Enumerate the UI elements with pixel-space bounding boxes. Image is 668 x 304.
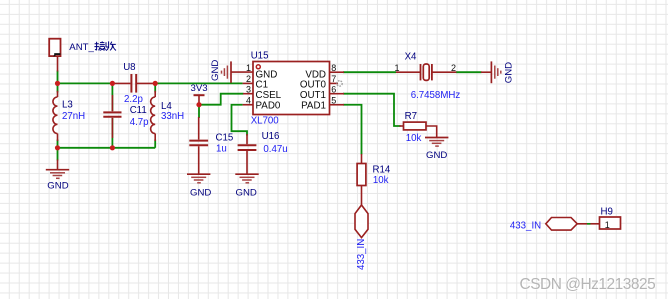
- svg-text:5: 5: [331, 96, 336, 106]
- pin 2 stub: [243, 82, 253, 84]
- svg-text:4: 4: [246, 96, 251, 106]
- svg-text:6.7458MHz: 6.7458MHz: [411, 90, 461, 101]
- svg-text:R14: R14: [373, 165, 391, 176]
- capacitor C15: [189, 117, 208, 174]
- value 4.7p: [130, 117, 149, 128]
- pin names left: [256, 69, 282, 111]
- value 27nH: [62, 111, 85, 122]
- svg-text:10k: 10k: [406, 133, 422, 144]
- watermark CSDN: [520, 276, 657, 294]
- wire L4 vertical x=155.2: [154, 83, 156, 147]
- wire VDD pin8 to crystal X4 pin1: [343, 71, 396, 73]
- svg-text:1: 1: [246, 63, 251, 73]
- wire antenna vertical x=57.5: [57, 71, 59, 148]
- svg-text:0.47u: 0.47u: [263, 144, 287, 155]
- capacitor C11: [103, 95, 121, 138]
- svg-text:H9: H9: [601, 206, 613, 217]
- net label ANT_接收: [69, 41, 116, 53]
- svg-text:2.2p: 2.2p: [124, 94, 143, 105]
- svg-text:2: 2: [246, 74, 251, 84]
- svg-text:U8: U8: [123, 62, 135, 73]
- designator C11: [130, 105, 147, 116]
- net label GND (below L3): [47, 181, 68, 192]
- resistor R7: [400, 122, 437, 137]
- svg-text:GND: GND: [503, 62, 514, 83]
- pin 4 stub: [243, 104, 253, 106]
- capacitor U8 (horizontal): [114, 74, 154, 93]
- port 433_IN (vertical, below R14): [355, 205, 368, 238]
- wire 3V3 down to C15: [198, 105, 200, 118]
- junction dot C11 top: [110, 81, 115, 86]
- svg-text:U16: U16: [262, 131, 280, 142]
- designator U8: [123, 62, 135, 73]
- connector P ANT rectangle: [49, 39, 60, 72]
- junction dot L3 bottom: [55, 145, 60, 150]
- svg-text:C15: C15: [216, 133, 234, 144]
- designator U16: [262, 131, 280, 142]
- designator R7: [405, 111, 417, 122]
- svg-text:433_IN: 433_IN: [356, 239, 367, 270]
- svg-text:L3: L3: [62, 100, 73, 111]
- svg-text:1: 1: [394, 63, 399, 73]
- svg-text:CSEL: CSEL: [256, 90, 282, 101]
- svg-text:33nH: 33nH: [161, 111, 184, 122]
- designator X4: [405, 52, 417, 63]
- value 6.7458MHz: [411, 90, 461, 101]
- ground GND below R7: [425, 138, 448, 147]
- net label GND (rotated, at pin1): [210, 60, 221, 81]
- svg-text:GND: GND: [426, 150, 447, 161]
- wire crystal X4 pin2 to ground: [456, 71, 482, 73]
- svg-text:PAD0: PAD0: [256, 101, 281, 112]
- svg-text:6: 6: [331, 85, 336, 95]
- power port 3V3: [194, 95, 205, 105]
- svg-text:XL700: XL700: [251, 116, 280, 127]
- value 10k: [406, 133, 422, 144]
- ground GND below C15: [187, 174, 210, 183]
- junction dot L4 top: [153, 81, 158, 86]
- svg-text:ANT_: ANT_: [69, 42, 94, 53]
- svg-text:GND: GND: [190, 187, 211, 198]
- pin1 marker circle: [256, 65, 260, 69]
- net label GND (below R7): [426, 150, 447, 161]
- connector H9 rectangle: [600, 217, 621, 229]
- svg-text:CSDN @Hz1213825: CSDN @Hz1213825: [520, 276, 656, 293]
- svg-text:1: 1: [605, 220, 610, 230]
- svg-text:OUT1: OUT1: [300, 90, 326, 101]
- svg-text:433_IN: 433_IN: [510, 221, 541, 232]
- designator U15: [251, 51, 269, 62]
- value 1u: [216, 144, 227, 155]
- pin 3 stub: [243, 93, 253, 95]
- pin 8 stub: [330, 71, 345, 73]
- value 0.47u: [263, 144, 287, 155]
- net label GND (below U16): [236, 187, 257, 198]
- value 33nH: [161, 111, 184, 122]
- port 433_IN (horizontal, at H9): [546, 218, 577, 231]
- value 2.2p: [124, 94, 143, 105]
- svg-text:PAD1: PAD1: [301, 101, 326, 112]
- value 10k (R14): [373, 175, 389, 186]
- wire PAD1 pin5 to R14: [343, 105, 362, 155]
- ground sideways after crystal: [481, 61, 501, 83]
- svg-text:GND: GND: [210, 60, 221, 81]
- svg-text:3V3: 3V3: [191, 83, 208, 94]
- net label 433_IN (at H9): [510, 221, 541, 232]
- wire 3V3 to CSEL pin3: [199, 94, 244, 105]
- designator L4: [161, 101, 172, 112]
- net label GND (rotated, after crystal): [503, 62, 514, 83]
- ground GND below L3: [46, 160, 69, 179]
- svg-text:C11: C11: [130, 105, 147, 116]
- designator H9: [601, 206, 613, 217]
- wire main horizontal net at y=83.4 from antenna junction to U15 pin2: [58, 82, 243, 84]
- wire OUT1 pin6 to R7: [343, 94, 401, 126]
- junction dot 3V3: [196, 102, 201, 107]
- inductor L3: [53, 91, 58, 141]
- junction dot at antenna/main wire: [55, 81, 60, 86]
- wire C11 vertical x=112.4: [111, 83, 113, 147]
- wire PAD0 pin4 down to U16: [232, 105, 248, 136]
- svg-text:27nH: 27nH: [62, 111, 85, 122]
- ground sideways at U15 pin1: [222, 61, 232, 82]
- ground GND below U16: [235, 174, 258, 183]
- pin 5 stub: [330, 104, 345, 106]
- wire bottom horizontal net at y=147.8: [58, 147, 156, 149]
- net label 3V3: [191, 83, 208, 94]
- pin 1 GND (U15) wire to ground: [231, 71, 253, 73]
- svg-text:1u: 1u: [216, 144, 227, 155]
- net label GND (below C15): [190, 187, 211, 198]
- svg-text:8: 8: [331, 63, 336, 73]
- svg-text:2: 2: [451, 63, 456, 73]
- svg-text:10k: 10k: [373, 175, 389, 186]
- crystal pin numbers: [394, 63, 456, 73]
- crystal X4: [396, 64, 456, 80]
- op IC U15 body: [253, 62, 330, 115]
- svg-text:GND: GND: [236, 187, 257, 198]
- svg-text:R7: R7: [405, 111, 417, 122]
- net label 433_IN (vertical): [356, 239, 367, 270]
- pin number 1 of ANT connector (rotated): [54, 54, 61, 56]
- value XL700: [251, 116, 280, 127]
- svg-text:X4: X4: [405, 52, 417, 63]
- svg-text:3: 3: [246, 85, 251, 95]
- junction dot C11 bottom: [110, 145, 115, 150]
- inductor L4: [151, 91, 156, 141]
- wire stub port to H9: [577, 223, 599, 225]
- no connect marker on pin 7: [337, 81, 342, 86]
- svg-text:4.7p: 4.7p: [130, 117, 149, 128]
- pin 6 stub: [330, 93, 345, 95]
- pin number 1 of H9: [605, 220, 610, 230]
- resistor R14: [357, 154, 366, 205]
- svg-text:C1: C1: [256, 79, 269, 90]
- svg-text:GND: GND: [47, 181, 68, 192]
- svg-text:OUT0: OUT0: [300, 79, 327, 90]
- designator R14: [373, 165, 391, 176]
- wire GND stub below bottom net x=57.5: [57, 148, 59, 161]
- pin numbers left: [246, 63, 251, 106]
- capacitor U16: [238, 134, 257, 174]
- designator C15: [216, 133, 234, 144]
- designator L3: [62, 100, 73, 111]
- pin numbers right: [331, 63, 336, 106]
- pin names right: [300, 69, 327, 111]
- svg-text:7: 7: [331, 74, 336, 84]
- svg-text:U15: U15: [251, 51, 269, 62]
- pin 7 stub: [330, 82, 339, 84]
